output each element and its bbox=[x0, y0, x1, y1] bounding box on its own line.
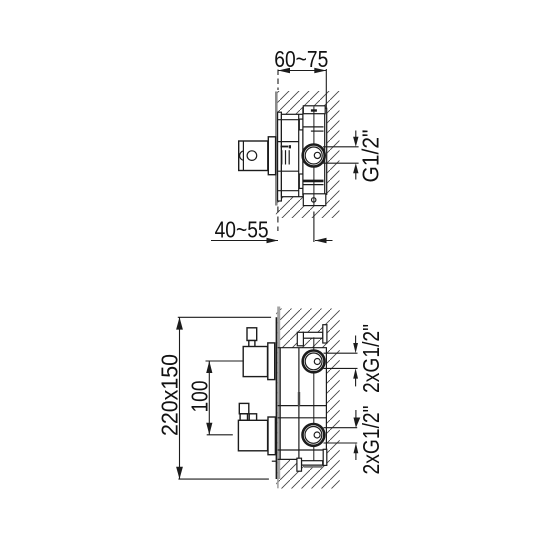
svg-text:2xG1/2": 2xG1/2" bbox=[358, 324, 384, 393]
svg-text:G1/2": G1/2" bbox=[358, 130, 384, 183]
svg-text:100: 100 bbox=[187, 381, 213, 413]
svg-text:2xG1/2": 2xG1/2" bbox=[358, 406, 384, 475]
svg-text:220x150: 220x150 bbox=[156, 354, 182, 436]
svg-text:40~55: 40~55 bbox=[215, 216, 269, 242]
svg-text:60~75: 60~75 bbox=[274, 46, 328, 72]
